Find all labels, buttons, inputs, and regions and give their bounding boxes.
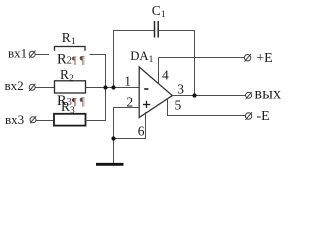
terminal вх3 [30,116,36,123]
junction dot output feedback [192,93,196,97]
wire pin 5 to -E [168,98,246,115]
svg-text:2: 2 [126,94,133,109]
resistor R1 [55,47,86,60]
wire вх3 to R3 [36,120,54,122]
wire pin 2 to ground [114,108,140,164]
wire feedback node up to C1 [114,31,155,88]
junction dot summing node right [111,85,115,89]
svg-text:6: 6 [138,124,145,139]
svg-text:вх2: вх2 [5,78,24,93]
junction dot ground [111,136,115,140]
ground [96,163,124,166]
terminal вых [246,92,252,99]
svg-text:4: 4 [162,68,169,83]
terminal вх2 [29,84,35,91]
terminal -E [245,112,252,120]
text R2 paragraph marks overlay [49,51,90,68]
op-amp DA1 [139,67,172,118]
wire вх2 to R2 [36,87,55,89]
svg-text:вх3: вх3 [5,112,24,127]
text R3 paragraph marks overlay [49,93,91,109]
svg-text:5: 5 [175,98,182,113]
svg-text:вых: вых [255,86,282,103]
svg-text:-E: -E [257,109,270,124]
wire R1 to summing node [85,55,106,88]
wire pin 4 to +E [158,58,160,85]
resistor R2 [55,81,86,93]
resistor R3 [54,114,86,126]
svg-text:1: 1 [124,74,131,89]
wire R3 to summing node [86,88,106,121]
svg-text:+E: +E [256,51,272,66]
wire +E rail [159,57,245,59]
svg-text:3: 3 [177,82,184,97]
capacitor C1 [155,21,159,38]
terminal +E [244,54,251,62]
wire summing node to op-amp pin 1 [86,87,140,89]
svg-text:вх1: вх1 [8,46,27,61]
wire pin 6 to ground node [114,112,146,139]
wire output pin 3 to вых [172,95,245,97]
plus sign non-inverting input [143,101,150,108]
terminal вх1 [29,51,35,58]
wire вх1 to R1 [36,54,56,56]
junction dot summing node left [103,85,107,89]
wire C1 to output node [158,31,194,96]
minus sign inverting input [144,88,148,90]
